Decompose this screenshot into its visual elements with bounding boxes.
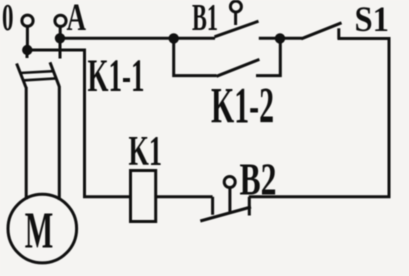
terminal A circle — [55, 15, 66, 26]
contact K1-1 left stub — [26, 50, 29, 58]
wire motor lead left — [25, 87, 28, 200]
contact K1-1 right stub — [59, 38, 62, 58]
node B1 left junction dot — [169, 33, 179, 43]
contact K1-1 link bar upper — [20, 71, 53, 73]
node A junction dot — [55, 33, 65, 43]
svg-text:K1-1: K1-1 — [88, 50, 145, 102]
wire coil to B2 — [156, 195, 213, 198]
svg-text:B2: B2 — [240, 155, 277, 205]
wire motor lead right — [58, 86, 61, 200]
switch S1 fixed post — [337, 28, 340, 39]
wire bus from 0 to coil branch — [27, 50, 130, 197]
svg-text:A: A — [67, 0, 87, 39]
wire top bus A to B1 pivot — [60, 37, 215, 40]
contact K1-2 blade — [217, 59, 260, 76]
wire S1 to right rail — [249, 39, 389, 197]
button B2 stem — [228, 188, 231, 212]
node B1 right junction dot — [275, 33, 285, 43]
contact K1-2 left drop — [174, 38, 217, 75]
svg-text:K1-2: K1-2 — [211, 79, 274, 135]
button B2 actuator circle — [224, 177, 235, 188]
contact K1-1 left blade — [17, 64, 26, 88]
svg-text:M: M — [25, 202, 54, 259]
coil K1 rectangle — [131, 171, 156, 222]
button B1 stem — [234, 12, 237, 25]
svg-text:0: 0 — [2, 0, 14, 39]
button B1 actuator circle — [230, 1, 241, 12]
svg-text:B1: B1 — [192, 0, 218, 39]
node 0 junction dot — [22, 45, 32, 55]
contact K1-2 right return — [256, 38, 280, 75]
contact K1-1 right blade — [50, 62, 59, 86]
wire A stem — [59, 27, 62, 34]
button B2 right post — [248, 197, 251, 216]
wire B1 to S1 — [259, 37, 302, 40]
contact K1-1 link bar lower — [23, 78, 56, 80]
svg-text:K1: K1 — [129, 129, 163, 175]
button B2 blade — [200, 207, 251, 221]
button B2 left bend — [211, 197, 214, 215]
svg-text:S1: S1 — [355, 0, 390, 39]
switch S1 blade — [301, 23, 341, 39]
motor M1 circle — [8, 194, 77, 263]
terminal 0 circle — [22, 15, 33, 26]
wire 0 stem — [26, 27, 29, 46]
button B1 blade — [215, 21, 259, 37]
